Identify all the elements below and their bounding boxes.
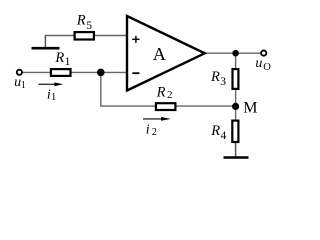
- svg-text:i: i: [146, 122, 150, 137]
- node M junction dot: [232, 103, 239, 110]
- svg-text:3: 3: [220, 76, 226, 88]
- svg-text:1: 1: [51, 92, 56, 103]
- svg-text:1: 1: [65, 56, 71, 68]
- svg-text:5: 5: [86, 20, 92, 32]
- resistor R2 body: [156, 103, 176, 110]
- op-amp plus sign (non-inverting input): [132, 36, 139, 43]
- resistor R5 body: [75, 32, 94, 39]
- svg-text:M: M: [243, 99, 257, 116]
- wire: output node down to R3: [235, 53, 237, 69]
- wire: R3 bottom to node M: [235, 89, 237, 107]
- svg-text:R: R: [54, 50, 64, 66]
- svg-text:R: R: [210, 123, 220, 139]
- resistor R4 body: [232, 121, 238, 142]
- wire: node M down to R4: [235, 107, 237, 121]
- ground (left, at R5): [32, 47, 60, 50]
- svg-text:4: 4: [221, 130, 227, 142]
- svg-text:u: u: [255, 56, 262, 71]
- wire: ground stem to R5 row corner: [44, 35, 46, 48]
- op-amp minus sign (inverting input): [132, 72, 139, 74]
- resistor R1 body: [51, 69, 71, 76]
- current arrow i1: [39, 82, 63, 86]
- svg-text:R: R: [156, 84, 166, 100]
- wire: feedback row to R2 left: [100, 105, 155, 107]
- svg-text:1: 1: [21, 80, 26, 91]
- wire: node N vertical down to feedback row: [100, 72, 102, 106]
- wire: R5 right to non-inverting input: [95, 35, 127, 37]
- ground (bottom right, at R4): [224, 156, 249, 159]
- junction node at inverting input: [97, 69, 105, 77]
- terminal uO (output): [261, 51, 266, 56]
- wire: u1 terminal to R1: [22, 71, 50, 73]
- wire: op-amp output to uO terminal: [204, 52, 261, 54]
- wire: R1 to inverting input: [71, 71, 127, 73]
- wire: R4 bottom to ground: [235, 142, 237, 157]
- svg-text:R: R: [76, 13, 86, 29]
- wire: R2 right to node M: [176, 105, 236, 107]
- svg-text:R: R: [210, 69, 220, 85]
- op-amp A triangle: [127, 16, 205, 91]
- junction node at output: [232, 50, 239, 57]
- svg-text:A: A: [153, 44, 166, 64]
- current arrow i2: [143, 117, 171, 121]
- terminal u1 (input): [17, 70, 22, 75]
- svg-text:2: 2: [167, 89, 173, 101]
- wire: ground corner to R5 left: [45, 35, 75, 37]
- svg-text:2: 2: [152, 127, 157, 138]
- resistor R3 body: [233, 69, 239, 89]
- svg-text:O: O: [263, 62, 271, 73]
